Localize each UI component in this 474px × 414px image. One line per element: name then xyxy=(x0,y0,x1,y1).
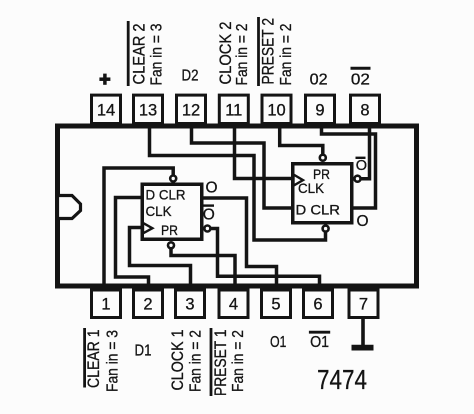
pin 4 xyxy=(219,290,248,318)
wire pin 8 O2-bar to FF2 O-bar bubble xyxy=(361,127,370,179)
svg-text:Fan in = 3: Fan in = 3 xyxy=(105,330,122,392)
pin 10 xyxy=(262,95,291,123)
wire pin 2 D1 to FF1 D input xyxy=(116,198,149,288)
svg-text:O1: O1 xyxy=(310,334,329,351)
FF2 output label O-bar xyxy=(356,158,368,174)
svg-text:D2: D2 xyxy=(182,68,199,85)
ground symbol at pin 7 xyxy=(352,317,374,348)
label PRESET 2 overline bar (pin 10) xyxy=(257,17,260,86)
IC body U1 7474 DIP-14 outline xyxy=(58,126,417,286)
svg-text:13: 13 xyxy=(139,101,157,119)
svg-text:O: O xyxy=(357,213,369,230)
svg-text:CLK: CLK xyxy=(298,180,325,196)
svg-text:7474: 7474 xyxy=(317,364,367,395)
FF1 PR bubble (bottom) xyxy=(168,242,174,248)
svg-text:D CLR: D CLR xyxy=(296,202,341,218)
FF1 CLR bubble (top) xyxy=(170,176,176,182)
label PRESET 1 overline bar (pin 4) xyxy=(210,328,213,396)
svg-text:Fan in = 3: Fan in = 3 xyxy=(149,24,166,86)
svg-text:8: 8 xyxy=(360,101,369,119)
label O1-bar overline (pin 6) xyxy=(309,331,330,334)
svg-text:1: 1 xyxy=(101,296,110,314)
label CLEAR 1 overline bar (pin 1) xyxy=(83,328,86,388)
svg-text:4: 4 xyxy=(229,296,238,314)
pin 8 xyxy=(351,95,380,123)
wire pin 10 PRESET2 to FF2 PR bubble xyxy=(280,127,323,155)
svg-text:9: 9 xyxy=(315,101,324,119)
pin 13 xyxy=(134,95,163,123)
svg-text:02: 02 xyxy=(351,72,370,89)
svg-text:7: 7 xyxy=(359,296,368,314)
label CLEAR 2 overline bar (pin 13) xyxy=(127,21,130,86)
wire pin 1 CLEAR1 to FF1 CLR bubble xyxy=(104,168,173,287)
wire pin 12 D2 to FF2 D input xyxy=(192,127,293,208)
wire pin 4 PRESET1 to FF1 PR bubble xyxy=(171,248,235,287)
FF2 CLR bubble (bottom) xyxy=(323,226,329,232)
pin 2 xyxy=(134,290,163,318)
FF1 output label O-bar xyxy=(203,206,215,224)
svg-text:3: 3 xyxy=(185,296,194,314)
FF2 O-bar bubble (right) xyxy=(355,176,361,182)
pin 11 xyxy=(219,95,248,123)
FF2 clock edge triangle xyxy=(294,175,304,186)
FF1 clock edge triangle xyxy=(143,223,152,234)
label + (Vcc) above pin 14 xyxy=(99,74,110,85)
svg-text:Fan in = 2: Fan in = 2 xyxy=(234,24,251,86)
pin 9 xyxy=(306,95,335,123)
svg-text:11: 11 xyxy=(225,101,242,119)
flip-flop FF2 body xyxy=(293,164,352,223)
svg-text:O1: O1 xyxy=(270,334,287,351)
pin 5 xyxy=(262,290,291,318)
svg-text:Fan in = 2: Fan in = 2 xyxy=(278,24,295,86)
wire pin 9 O2 to FF2 O output xyxy=(322,127,376,208)
svg-text:10: 10 xyxy=(267,101,285,119)
flip-flop FF1 body xyxy=(142,184,202,239)
svg-text:2: 2 xyxy=(143,296,152,314)
svg-text:Fan in = 2: Fan in = 2 xyxy=(230,330,247,392)
svg-text:CLEAR 1: CLEAR 1 xyxy=(85,330,103,389)
label 02-bar overline (pin 8) xyxy=(351,67,371,70)
wire pin 13 CLEAR2 to FF2 CLR bubble xyxy=(150,127,326,240)
svg-text:6: 6 xyxy=(313,296,322,314)
svg-text:O: O xyxy=(203,207,215,224)
svg-text:PR: PR xyxy=(161,222,178,238)
svg-text:O: O xyxy=(356,158,367,174)
pin 3 xyxy=(176,290,205,318)
wire FF1 O-bar output bubble to pin 6 xyxy=(211,229,320,288)
pin 7 xyxy=(349,290,378,318)
svg-text:5: 5 xyxy=(271,296,280,314)
svg-text:CLK: CLK xyxy=(146,203,173,219)
svg-text:12: 12 xyxy=(182,101,200,119)
svg-text:CLOCK 1: CLOCK 1 xyxy=(169,330,187,391)
wire pin 3 CLOCK1 to FF1 CLK triangle xyxy=(130,228,191,288)
svg-text:CLEAR 2: CLEAR 2 xyxy=(130,24,148,85)
svg-text:D1: D1 xyxy=(135,343,152,360)
wire pin 11 CLOCK2 to FF2 CLK triangle xyxy=(235,127,293,179)
FF2 PR bubble (top) xyxy=(320,155,326,161)
svg-text:D CLR: D CLR xyxy=(146,187,186,203)
svg-text:CLOCK 2: CLOCK 2 xyxy=(217,22,235,85)
svg-text:02: 02 xyxy=(310,72,328,89)
notch (pin-1 index mark on left edge) xyxy=(58,196,81,219)
pin 12 xyxy=(177,95,206,123)
svg-text:Fan in = 2: Fan in = 2 xyxy=(188,330,205,392)
pin 1 xyxy=(92,290,121,318)
svg-text:PRESET 1: PRESET 1 xyxy=(212,330,230,397)
svg-text:14: 14 xyxy=(97,101,115,119)
wire FF1 O output to pin 5 xyxy=(203,198,277,287)
pin 6 xyxy=(304,290,333,318)
pin 14 xyxy=(92,95,121,123)
svg-text:PRESET 2: PRESET 2 xyxy=(259,18,277,85)
svg-text:O: O xyxy=(206,180,218,197)
FF1 O-bar bubble (right) xyxy=(204,226,210,232)
